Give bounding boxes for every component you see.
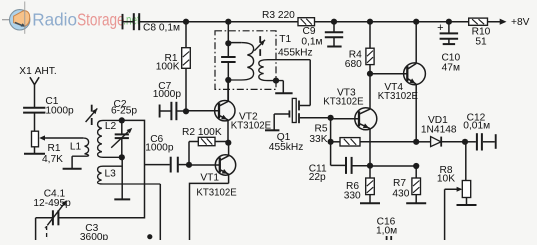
svg-text:R2 100K: R2 100K	[182, 127, 222, 138]
svg-text:12-495p: 12-495p	[33, 198, 71, 209]
svg-text:47м: 47м	[442, 63, 460, 74]
svg-text:33K: 33K	[309, 134, 327, 145]
svg-text:455kHz: 455kHz	[278, 47, 313, 58]
svg-text:1000p: 1000p	[45, 105, 74, 116]
svg-text:X1 АНТ.: X1 АНТ.	[19, 66, 56, 77]
svg-text:Radio: Radio	[32, 10, 77, 30]
svg-text:22p: 22p	[309, 172, 326, 183]
svg-text:R1: R1	[48, 143, 61, 154]
svg-text:L3: L3	[105, 169, 117, 180]
svg-text:1000p: 1000p	[145, 142, 174, 153]
svg-text:L2: L2	[105, 121, 117, 132]
svg-text:1,0м: 1,0м	[376, 226, 397, 237]
svg-text:+8V: +8V	[511, 17, 530, 28]
svg-text:C8 0,1м: C8 0,1м	[143, 23, 180, 34]
svg-text:6-25p: 6-25p	[111, 106, 137, 117]
svg-text:51: 51	[475, 36, 487, 47]
svg-text:1000p: 1000p	[153, 89, 182, 100]
svg-text:KT3102E: KT3102E	[196, 187, 236, 198]
svg-text:.net: .net	[123, 12, 140, 27]
svg-text:KT3102E: KT3102E	[378, 91, 418, 102]
svg-text:KT3102E: KT3102E	[323, 97, 363, 108]
svg-text:+: +	[437, 22, 443, 34]
svg-text:10K: 10K	[437, 173, 455, 184]
svg-text:R3 220: R3 220	[262, 10, 295, 21]
svg-text:680: 680	[345, 59, 362, 70]
svg-text:4,7K: 4,7K	[42, 154, 63, 165]
svg-text:330: 330	[344, 190, 361, 201]
svg-text:430: 430	[392, 189, 409, 200]
svg-text:VT1: VT1	[200, 172, 219, 183]
svg-text:Storage: Storage	[77, 10, 125, 30]
svg-text:T1: T1	[279, 34, 291, 45]
svg-text:3600p: 3600p	[80, 232, 109, 240]
svg-text:R5: R5	[314, 123, 327, 134]
svg-text:100K: 100K	[156, 61, 180, 72]
svg-text:R7: R7	[393, 178, 406, 189]
svg-text:455kHz: 455kHz	[269, 142, 304, 153]
svg-text:L1: L1	[70, 142, 82, 153]
svg-text:0,1м: 0,1м	[301, 36, 322, 47]
svg-text:0,01м: 0,01м	[463, 121, 490, 132]
svg-text:1N4148: 1N4148	[421, 125, 457, 136]
